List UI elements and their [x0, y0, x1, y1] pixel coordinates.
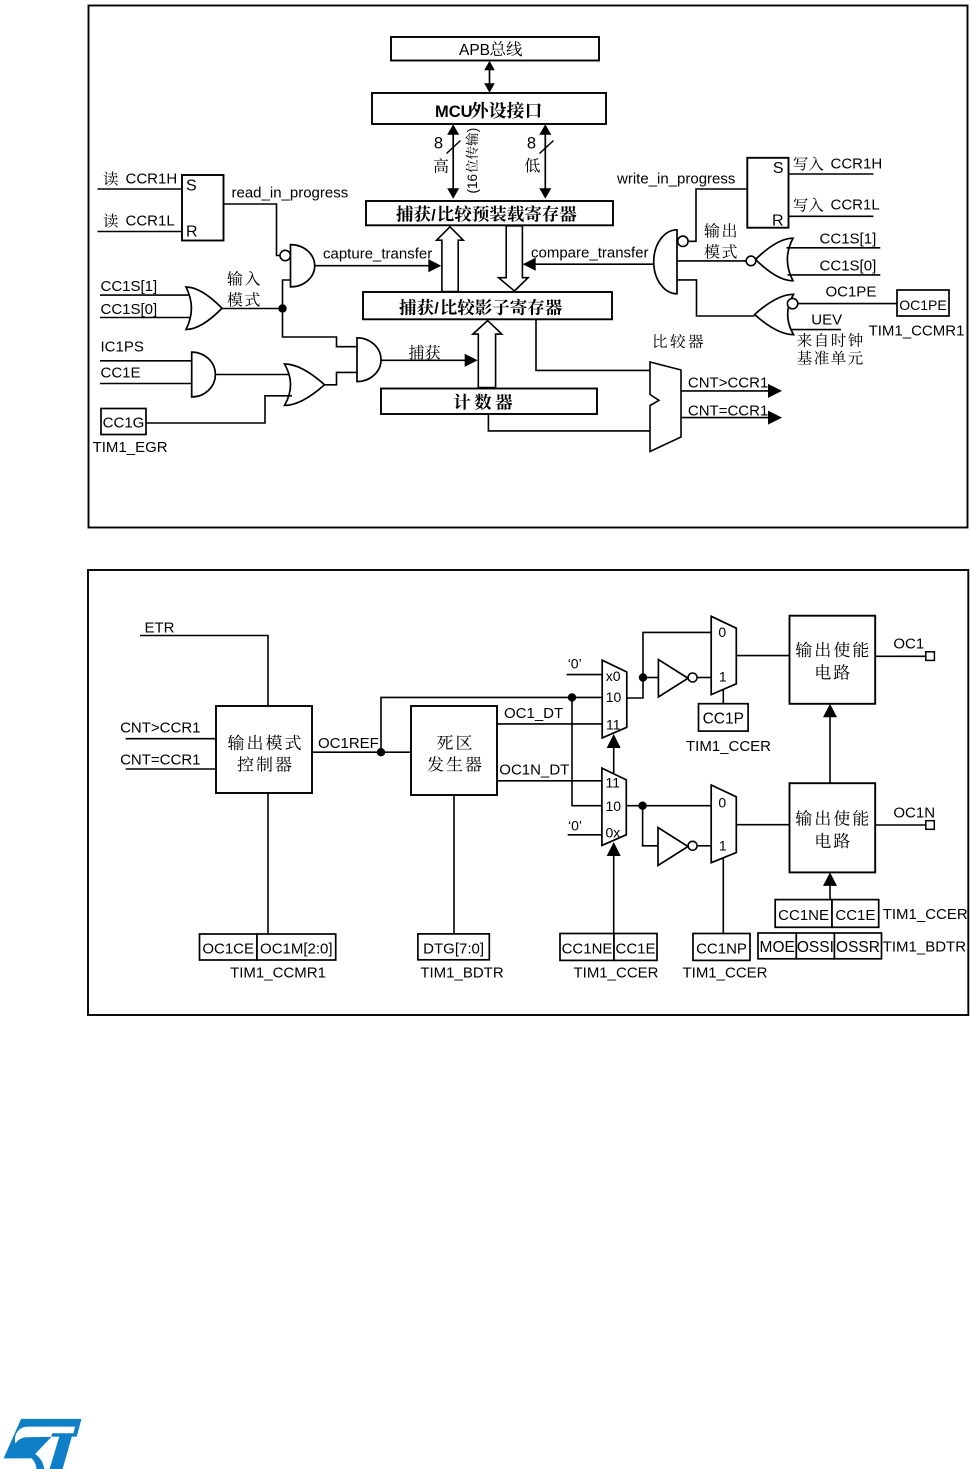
- svg-text:11: 11: [606, 775, 621, 791]
- label: CC1NP: [696, 941, 747, 958]
- label: CC1S[0] (left): [101, 301, 158, 318]
- svg-text:compare_transfer: compare_transfer: [531, 245, 649, 262]
- register bit: CC1E box (selector): [614, 934, 657, 961]
- svg-text:CC1S[1]: CC1S[1]: [101, 278, 158, 295]
- label: CC1G: [103, 415, 145, 432]
- label: OC1 output enable title: [796, 642, 869, 680]
- wire: OC1N output line: [875, 824, 926, 826]
- wire: polarity mux to output enable: [736, 655, 789, 657]
- block: capture/compare preload register box: [366, 201, 613, 225]
- label: TIM1_CCMR1 (top diagram): [869, 323, 965, 340]
- svg-text:CC1NE: CC1NE: [778, 907, 829, 924]
- logo: STMicroelectronics: [4, 1419, 82, 1469]
- wire: enable arrow from CC1NE/CC1E: [823, 872, 837, 899]
- svg-text:CC1NE: CC1NE: [562, 941, 613, 958]
- wire: bottom mux output to node: [626, 805, 711, 807]
- wire: APB-MCU bidirectional bus arrow: [484, 61, 495, 93]
- label: OC1N output enable title: [796, 810, 869, 848]
- register bit: OSSR box: [834, 933, 881, 959]
- label: shadow register title: [399, 299, 562, 318]
- pad: OC1N pin square: [926, 821, 935, 830]
- label: capture_transfer: [323, 246, 432, 263]
- svg-text:OSSI: OSSI: [797, 939, 834, 956]
- wire: U4 output to OR gate: [215, 374, 292, 376]
- label: 8 (high byte): [434, 135, 443, 153]
- wire: U5 output to capture AND: [323, 372, 357, 384]
- block: dead-time generator box: [411, 706, 497, 795]
- bubble: OC1PE inverted input: [787, 298, 797, 308]
- label: CC1E (selector): [615, 941, 655, 958]
- svg-text:CC1E: CC1E: [615, 941, 655, 958]
- label: S input (write latch): [773, 160, 784, 177]
- wire: CC1E line: [100, 383, 192, 385]
- label: IC1PS: [101, 339, 144, 356]
- wire: OC1N_DT line: [498, 780, 602, 782]
- wire: UEV line: [791, 329, 841, 331]
- label: OC1CE: [202, 941, 254, 958]
- wire: compare_transfer arrow: [523, 258, 654, 271]
- node: OC1REF junction: [377, 748, 385, 756]
- svg-text:OC1REF: OC1REF: [318, 735, 379, 752]
- svg-text:APB: APB: [459, 42, 490, 59]
- label: TIM1_EGR: [93, 439, 168, 456]
- svg-text:CCR1H: CCR1H: [126, 171, 178, 188]
- label: read_in_progress: [232, 185, 349, 202]
- label: MCU peripheral interface title: [435, 102, 541, 121]
- svg-text:1: 1: [719, 838, 727, 854]
- label: 1 (OC1N polarity): [719, 838, 727, 854]
- label: from clock base unit line1: [797, 333, 862, 347]
- gate: compare transfer AND gate U6: [654, 230, 677, 294]
- svg-text:CCR1L: CCR1L: [126, 213, 175, 230]
- wire: write latch to AND gate: [688, 189, 747, 241]
- svg-text:/: /: [434, 301, 439, 318]
- label: CNT=CCR1 (top diagram): [688, 402, 768, 419]
- label: 0x: [606, 824, 621, 840]
- block: capture/compare shadow register box: [363, 292, 612, 319]
- label: 10 (bottom mux): [606, 798, 622, 814]
- label: '0' (bottom): [568, 818, 582, 834]
- svg-text:CCR1L: CCR1L: [831, 197, 880, 214]
- gate: capture transfer AND gate U1: [291, 245, 315, 287]
- mux: OC1N polarity selector: [711, 785, 736, 863]
- label: compare_transfer: [531, 245, 649, 262]
- label: counter title: [454, 394, 513, 410]
- svg-text:R: R: [186, 224, 198, 241]
- svg-text:TIM1_BDTR: TIM1_BDTR: [883, 939, 967, 956]
- svg-text:CC1S[0]: CC1S[0]: [101, 301, 158, 318]
- svg-text:MCU: MCU: [435, 103, 473, 121]
- svg-text:CC1S[1]: CC1S[1]: [820, 231, 877, 248]
- wire: capture_transfer arrow: [315, 259, 441, 272]
- svg-text:UEV: UEV: [811, 311, 842, 328]
- label: OC1 pin: [893, 636, 924, 653]
- wire: select arrow into top mux: [607, 734, 621, 774]
- svg-text:TIM1_CCER: TIM1_CCER: [573, 965, 658, 982]
- label: OSSR: [836, 939, 880, 956]
- svg-text:CCR1H: CCR1H: [831, 156, 883, 173]
- label: TIM1_CCER (under CC1NP): [682, 965, 767, 982]
- gate: capture event OR gate U5: [285, 364, 325, 405]
- svg-text:OC1M[2:0]: OC1M[2:0]: [260, 941, 333, 958]
- label: high byte: [434, 158, 448, 173]
- label: OC1N pin: [893, 805, 935, 822]
- label: 11 (top mux): [606, 716, 621, 732]
- label: TIM1_CCER (under CC1P): [686, 738, 771, 755]
- label: input mode: [227, 271, 260, 307]
- label: 11 (bottom mux): [606, 775, 621, 791]
- svg-text:CC1NP: CC1NP: [696, 941, 747, 958]
- wire: '0' input (top): [567, 674, 603, 676]
- svg-text:CNT=CCR1: CNT=CCR1: [688, 402, 768, 419]
- svg-text:OC1PE: OC1PE: [825, 284, 876, 301]
- wire: enable arrow between output enable boxes: [823, 704, 837, 783]
- svg-text:ETR: ETR: [145, 619, 175, 636]
- wire: OC1PE line: [797, 303, 897, 305]
- label: CNT>CCR1 (top diagram): [688, 375, 768, 392]
- label: CC1NE (enable): [778, 907, 829, 924]
- svg-text:‘0’: ‘0’: [568, 656, 582, 672]
- register bit: OC1CE box: [200, 934, 258, 960]
- label: CC1E (enable): [835, 907, 875, 924]
- label: low byte: [525, 158, 540, 173]
- wire: NOR to U6 middle input: [677, 260, 747, 262]
- svg-text:TIM1_EGR: TIM1_EGR: [93, 439, 168, 456]
- label: CC1S[1] (left): [101, 278, 158, 295]
- svg-text:TIM1_BDTR: TIM1_BDTR: [420, 965, 504, 982]
- register bit: CC1NP box: [693, 934, 750, 961]
- label: 1 (OC1 polarity): [719, 669, 727, 685]
- label: DTG[7:0]: [423, 941, 484, 958]
- gate: OC1PE-UEV OR gate U8: [755, 294, 794, 334]
- block: APB bus register box: [391, 37, 599, 61]
- label: UEV: [811, 311, 842, 328]
- label: read CCR1L: [104, 213, 175, 230]
- wire: node down to inverter: [643, 806, 658, 846]
- svg-text:0: 0: [718, 795, 726, 811]
- label: TIM1_CCER (enable row): [883, 906, 968, 923]
- label: preload register title: [396, 205, 576, 224]
- label: MOE: [760, 939, 795, 956]
- inverted input bubble (read_in_progress): [280, 250, 290, 260]
- label: CNT=CCR1 (bottom): [120, 752, 200, 769]
- label: output mode controller title: [228, 734, 301, 771]
- label: dead-time generator title: [428, 735, 482, 772]
- svg-text:8: 8: [434, 135, 443, 153]
- label: TIM1_BDTR (bottom left): [420, 965, 504, 982]
- label: TIM1_CCER (selector): [573, 965, 658, 982]
- wire: OC1 output line: [875, 655, 926, 657]
- wire: capture transfer hollow up-arrow: [437, 227, 464, 292]
- wire: CC1S[0] line (right): [788, 274, 881, 276]
- node: bypass junction to lower mux: [568, 693, 576, 701]
- wire: compare transfer hollow down-arrow: [499, 226, 528, 291]
- label: write_in_progress: [616, 171, 735, 188]
- svg-text:(16: (16: [465, 174, 480, 194]
- register bit: CC1NE box (enable): [775, 900, 832, 928]
- register bit: OC1PE box: [897, 290, 949, 316]
- svg-text:x0: x0: [606, 668, 621, 684]
- label: S input (read latch): [186, 178, 197, 195]
- svg-text:TIM1_CCER: TIM1_CCER: [883, 906, 968, 923]
- label: APB bus title: [459, 41, 522, 59]
- wire: input mode OR output: [222, 308, 283, 310]
- label: CNT>CCR1 (bottom): [120, 720, 200, 737]
- svg-text:read_in_progress: read_in_progress: [232, 185, 349, 202]
- register bit: OC1M box: [257, 934, 336, 960]
- gate: capture AND gate U3: [357, 338, 381, 382]
- label: CC1P: [703, 711, 744, 728]
- svg-text:0x: 0x: [606, 824, 621, 840]
- label: comparator title: [654, 334, 703, 348]
- mux: OC1 source selector: [602, 660, 627, 738]
- label: TIM1_BDTR (right): [883, 939, 967, 956]
- wire: capture arrow to counter up-arrow: [381, 354, 478, 367]
- wire: write CCR1L line: [789, 215, 874, 217]
- register bit: CC1G box: [101, 409, 146, 435]
- register bit: OSSI box: [796, 933, 834, 959]
- svg-text:OC1CE: OC1CE: [202, 941, 254, 958]
- comparator: CNT vs CCR1: [650, 362, 681, 452]
- svg-text:TIM1_CCMR1: TIM1_CCMR1: [869, 323, 965, 340]
- wire: AND input step from input-mode node: [283, 280, 291, 306]
- mux: OC1N source selector: [602, 768, 626, 845]
- svg-text:write_in_progress: write_in_progress: [616, 171, 735, 188]
- block: OC1 output enable circuit box: [790, 616, 876, 704]
- label: '0' (top): [568, 656, 582, 672]
- wire: low byte bus arrow: [539, 124, 551, 198]
- label: OC1PE (wire label): [825, 284, 876, 301]
- wire: read latch output to AND gate: [224, 204, 281, 256]
- svg-text:10: 10: [606, 798, 622, 814]
- svg-text:CNT>CCR1: CNT>CCR1: [120, 720, 200, 737]
- wire: ETR line: [140, 636, 268, 707]
- wire: U8 output to U6 lower input: [677, 280, 755, 316]
- label: ETR: [145, 619, 175, 636]
- wire: DTG to dead-time generator: [453, 795, 455, 934]
- wire: CC1S[1] line (left): [100, 294, 192, 296]
- wire: OC1N polarity mux to output enable: [736, 824, 789, 826]
- mux: OC1 polarity selector: [711, 616, 736, 694]
- svg-text:R: R: [772, 213, 784, 230]
- wire: OC1N polarity select from CC1NP: [722, 858, 724, 934]
- svg-text:TIM1_CCER: TIM1_CCER: [682, 965, 767, 982]
- label: OSSI: [797, 939, 834, 956]
- svg-text:CC1P: CC1P: [703, 711, 744, 728]
- bubble: OC1 inverter bubble: [688, 673, 697, 682]
- svg-text:‘0’: ‘0’: [568, 818, 582, 834]
- register bit: CC1E box (enable): [832, 900, 879, 928]
- wire: read CCR1H line: [98, 188, 183, 190]
- svg-text:TIM1_CCER: TIM1_CCER: [686, 738, 771, 755]
- svg-text:CC1G: CC1G: [103, 415, 145, 432]
- wire: CC1S[0] line (left): [100, 317, 192, 319]
- svg-text:10: 10: [606, 689, 622, 705]
- label: output mode: [704, 223, 736, 259]
- block: output mode controller box: [216, 706, 312, 793]
- label: write CCR1L: [794, 197, 880, 214]
- wire: OC1REF bypass up and across: [381, 697, 602, 752]
- gate: IC1PS-CC1E AND gate U4: [192, 352, 216, 397]
- label: OC1N_DT: [499, 762, 569, 779]
- label: R input (write latch): [772, 213, 784, 230]
- svg-text:OC1PE: OC1PE: [899, 297, 946, 313]
- wire: polarity select from CC1P: [722, 690, 724, 704]
- block: MCU peripheral interface box: [372, 93, 606, 124]
- svg-text:OC1: OC1: [893, 636, 924, 653]
- wire: counter to comparator: [488, 414, 650, 431]
- node: OC1 path junction: [639, 673, 647, 681]
- node: OC1N path junction: [638, 802, 646, 810]
- wire: OC1M to output mode controller: [267, 793, 269, 934]
- svg-text:CNT=CCR1: CNT=CCR1: [120, 752, 200, 769]
- svg-text:OC1N_DT: OC1N_DT: [499, 762, 569, 779]
- wire: capture hollow up-arrow (counter to shadow): [473, 321, 502, 388]
- wire: CNT=CCR1 arrow: [681, 411, 782, 425]
- label: TIM1_CCMR1 (bottom): [230, 965, 326, 982]
- svg-text:capture_transfer: capture_transfer: [323, 246, 432, 263]
- latch: read CCR1 S/R latch: [182, 175, 224, 241]
- wire: write CCR1H line: [789, 173, 874, 175]
- latch: write CCR1 S/R latch: [747, 158, 788, 228]
- label: OC1PE (register): [899, 297, 946, 313]
- label: OC1M[2:0]: [260, 941, 333, 958]
- svg-text:TIM1_CCMR1: TIM1_CCMR1: [230, 965, 326, 982]
- label: 8 (low byte): [527, 135, 536, 153]
- svg-text:S: S: [186, 178, 197, 195]
- register bit: CC1P box: [699, 704, 749, 731]
- gate: input mode OR gate U2: [186, 287, 222, 330]
- svg-text:DTG[7:0]: DTG[7:0]: [423, 941, 484, 958]
- bubble: NOR output bubble: [746, 256, 756, 266]
- svg-text:OC1N: OC1N: [893, 805, 935, 822]
- label: write CCR1H: [794, 156, 883, 173]
- wire: CNT>CCR1 arrow: [681, 384, 782, 398]
- svg-text:CC1E: CC1E: [101, 365, 141, 382]
- wire: input mode node to capture AND gate: [283, 309, 358, 347]
- wire: '0' input (bottom): [568, 834, 602, 836]
- wire: high byte bus arrow: [447, 124, 459, 198]
- frame: capture/compare channel diagram border: [89, 6, 968, 528]
- block: OC1N output enable circuit box: [790, 783, 876, 872]
- gate: OC1N inverter: [658, 828, 688, 866]
- label: CC1S[1] (right): [820, 231, 877, 248]
- register bit: DTG box: [418, 934, 489, 960]
- label: CC1E (left): [101, 365, 141, 382]
- wire: OC1REF output: [312, 751, 411, 753]
- node: input mode junction: [278, 304, 286, 312]
- wire: CNT=CCR1 input line: [126, 768, 216, 770]
- svg-text:8: 8: [527, 135, 536, 153]
- label: 16-bit transfer (rotated): [465, 128, 480, 194]
- inverted input bubble (write_in_progress): [678, 236, 688, 246]
- wire: CC1S[1] line (right): [787, 247, 881, 249]
- gate: OC1 inverter: [658, 660, 688, 698]
- wire: bypass down to lower mux: [572, 697, 602, 805]
- label: 0 (OC1 polarity): [718, 624, 726, 640]
- label: OC1REF: [318, 735, 379, 752]
- pad: OC1 pin square: [926, 652, 935, 661]
- wire: CNT>CCR1 input line: [126, 738, 216, 740]
- label: x0: [606, 668, 621, 684]
- register bit: CC1NE box (selector): [560, 934, 614, 961]
- svg-text:0: 0: [718, 624, 726, 640]
- wire: OC1_DT line: [498, 723, 603, 725]
- label: 10 (top mux): [606, 689, 622, 705]
- wire: top mux output to node: [627, 632, 711, 698]
- label: bus width slash (high): [447, 141, 461, 154]
- svg-text:1: 1: [719, 669, 727, 685]
- svg-text:11: 11: [606, 716, 621, 732]
- label: R input (read latch): [186, 224, 198, 241]
- label: capture (Chinese): [409, 345, 440, 360]
- label: 0 (OC1N polarity): [718, 795, 726, 811]
- label: OC1_DT: [504, 705, 563, 722]
- wire: inverter to OC1N polarity mux: [697, 845, 711, 847]
- svg-text:OC1_DT: OC1_DT: [504, 705, 563, 722]
- svg-text:): ): [465, 128, 480, 133]
- wire: shadow register to comparator: [536, 319, 650, 370]
- svg-text:CC1E: CC1E: [835, 907, 875, 924]
- label: CC1NE (selector): [562, 941, 613, 958]
- block: counter box: [381, 389, 597, 415]
- register bit: MOE box: [758, 933, 796, 959]
- svg-text:OSSR: OSSR: [836, 939, 880, 956]
- frame: output stage diagram border: [88, 570, 968, 1015]
- wire: CC1G to OR gate: [146, 396, 292, 423]
- svg-text:S: S: [773, 160, 784, 177]
- svg-text:/: /: [431, 207, 436, 224]
- wire: IC1PS line: [100, 360, 192, 362]
- gate: output mode NOR gate U7: [756, 238, 794, 281]
- svg-text:CNT>CCR1: CNT>CCR1: [688, 375, 768, 392]
- label: CC1S[0] (right): [820, 258, 877, 275]
- label: from clock base unit line2: [797, 350, 862, 364]
- wire: read CCR1L line: [98, 231, 183, 233]
- wire: inverter to polarity mux: [697, 677, 711, 679]
- bubble: OC1N inverter bubble: [688, 841, 697, 850]
- svg-text:MOE: MOE: [760, 939, 795, 956]
- label: read CCR1H: [104, 171, 178, 188]
- wire: node to inverter: [643, 677, 658, 679]
- wire: select arrow into bottom mux: [607, 842, 621, 934]
- label: bus width slash (low): [540, 141, 554, 154]
- svg-text:IC1PS: IC1PS: [101, 339, 144, 356]
- svg-text:CC1S[0]: CC1S[0]: [820, 258, 877, 275]
